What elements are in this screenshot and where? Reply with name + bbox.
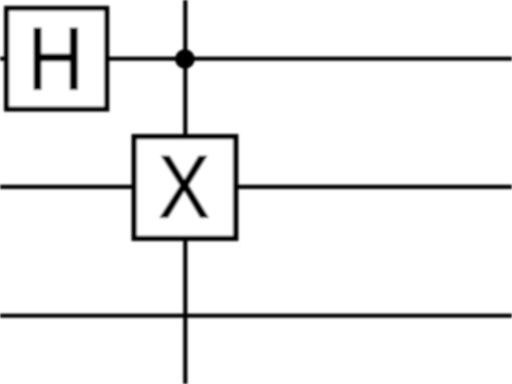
control dot <box>175 49 195 69</box>
wire qubit q1 <box>0 185 512 189</box>
gate H box <box>7 8 107 109</box>
svg-text:H: H <box>27 9 83 109</box>
wire qubit q2 <box>0 314 512 318</box>
wire qubit q0 <box>0 57 512 61</box>
gate X box <box>134 137 235 239</box>
svg-text:X: X <box>158 137 210 237</box>
wire vertical control line <box>183 0 187 384</box>
